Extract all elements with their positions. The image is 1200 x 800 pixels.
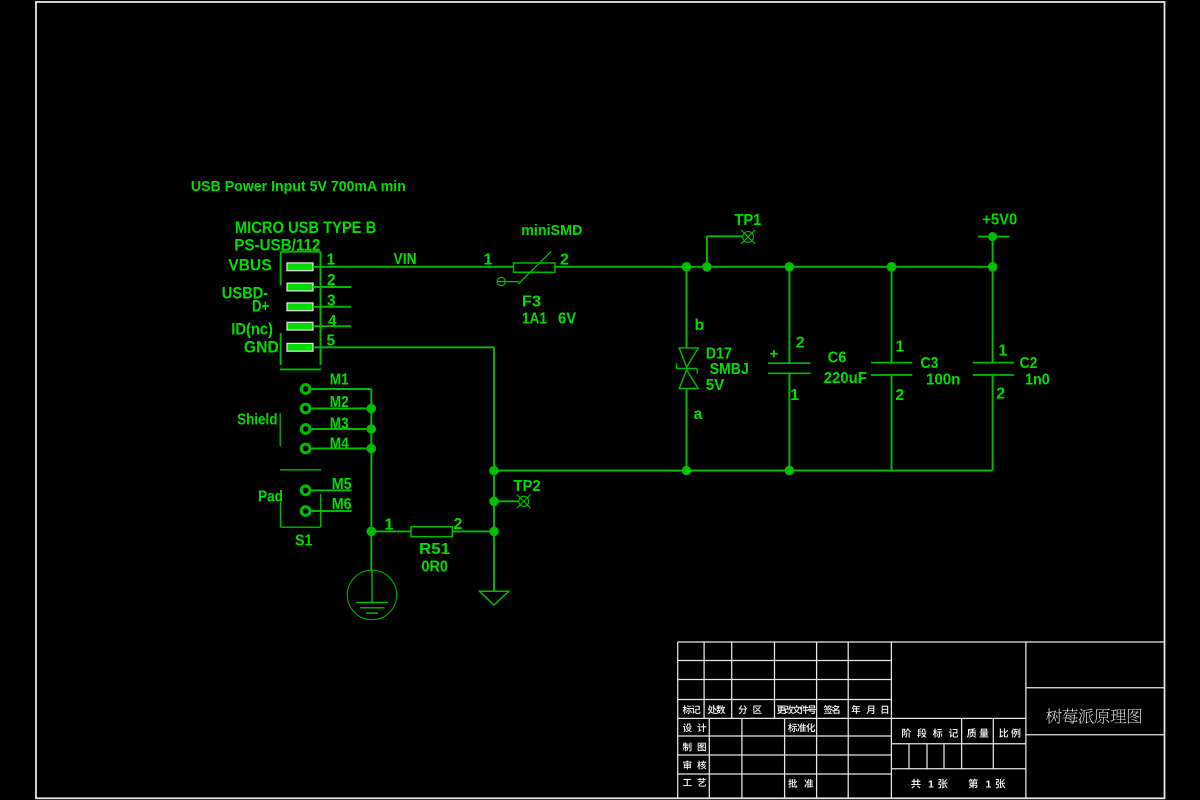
wire C3 bottom branch xyxy=(891,375,893,471)
wire R51 right xyxy=(452,530,494,532)
pad bracket xyxy=(281,494,321,527)
TVS diode D17 symbol xyxy=(677,348,699,389)
header 质量 xyxy=(967,728,976,737)
junction TP2 xyxy=(489,497,499,507)
svg-text:M2: M2 xyxy=(330,394,349,411)
capacitor C6 plates xyxy=(768,363,811,373)
wire C3 top branch xyxy=(891,267,893,363)
svg-text:0R0: 0R0 xyxy=(422,558,448,575)
svg-text:S1: S1 xyxy=(295,533,313,550)
wire GND from pin5 xyxy=(313,346,494,348)
wire from fuse to +5V0 rail xyxy=(555,266,993,268)
svg-text:C3: C3 xyxy=(921,355,939,372)
svg-text:M5: M5 xyxy=(332,476,352,493)
wire VIN from pin1 to fuse xyxy=(313,266,514,268)
testpoint TP1 symbol xyxy=(741,230,755,244)
earth ground symbol (S1) xyxy=(347,570,396,619)
wire D17 top branch xyxy=(686,267,688,348)
svg-text:TP2: TP2 xyxy=(513,478,540,495)
capacitor C3 plates xyxy=(871,363,912,375)
svg-text:100n: 100n xyxy=(926,372,960,389)
connector J1 MICRO USB TYPE B body xyxy=(280,252,321,370)
ground triangle GND xyxy=(480,591,509,605)
junction R51 pin2 xyxy=(489,527,499,537)
svg-text:Shield: Shield xyxy=(237,412,277,429)
svg-text:2: 2 xyxy=(895,387,904,404)
svg-text:MICRO USB TYPE B: MICRO USB TYPE B xyxy=(235,218,376,237)
svg-text:2: 2 xyxy=(454,516,463,533)
svg-text:2: 2 xyxy=(996,385,1005,402)
row 制图 xyxy=(683,742,692,751)
header 比例 xyxy=(999,728,1008,737)
junction D17 bottom xyxy=(682,466,692,476)
svg-text:1n0: 1n0 xyxy=(1025,372,1050,389)
svg-text:a: a xyxy=(694,406,703,423)
svg-text:b: b xyxy=(695,317,705,334)
svg-text:miniSMD: miniSMD xyxy=(521,222,582,239)
junction bottom rail left xyxy=(489,466,499,476)
svg-text:M4: M4 xyxy=(330,435,349,452)
wire C2 top branch xyxy=(992,267,994,363)
header 处数 xyxy=(708,705,717,714)
header 分区 xyxy=(738,705,747,714)
junction D17/top xyxy=(682,262,692,272)
svg-text:ID(nc): ID(nc) xyxy=(231,320,273,339)
junction M4 xyxy=(367,444,377,454)
mounting pins M1-M4 pads and wires xyxy=(301,385,371,453)
svg-text:1: 1 xyxy=(986,779,992,791)
svg-text:VBUS: VBUS xyxy=(228,255,272,274)
svg-text:Pad: Pad xyxy=(258,489,283,506)
wire pin2 stub xyxy=(313,286,351,288)
row 工艺 xyxy=(683,779,692,786)
resistor R51 body xyxy=(411,527,452,537)
wire C2 bottom branch xyxy=(992,375,994,471)
sheet num 第1张 xyxy=(968,779,978,789)
testpoint TP2 symbol xyxy=(517,494,531,508)
capacitor C2 plates xyxy=(973,363,1014,375)
junction C6 top xyxy=(785,262,795,272)
svg-text:F3: F3 xyxy=(522,294,541,311)
wire TP1 branch xyxy=(706,236,708,266)
wire C6 top branch xyxy=(788,267,790,363)
wire D17 bottom branch xyxy=(686,389,688,471)
junction C2/+5V0 xyxy=(988,262,998,272)
svg-text:M1: M1 xyxy=(330,372,349,389)
svg-text:VIN: VIN xyxy=(394,251,417,268)
fuse F3 miniSMD body xyxy=(497,251,555,285)
row 标准化 xyxy=(788,723,797,732)
junction R51 pin1 xyxy=(367,527,377,537)
row 审核 xyxy=(683,760,691,769)
junction C3 top xyxy=(887,262,897,272)
svg-text:TP1: TP1 xyxy=(734,212,761,229)
svg-text:GND: GND xyxy=(244,338,279,357)
svg-text:4: 4 xyxy=(328,313,337,330)
junction TP1 xyxy=(702,262,712,272)
svg-text:1: 1 xyxy=(998,343,1007,360)
svg-text:R51: R51 xyxy=(419,541,450,558)
header 标记 xyxy=(683,705,692,714)
svg-text:1: 1 xyxy=(790,387,799,404)
junction M3 xyxy=(367,424,377,434)
row 设计 xyxy=(683,723,692,732)
svg-text:+: + xyxy=(770,346,779,363)
svg-text:USB Power Input 5V 700mA min: USB Power Input 5V 700mA min xyxy=(191,179,406,195)
header 阶段标记 xyxy=(902,728,911,737)
svg-text:SMBJ: SMBJ xyxy=(710,361,749,378)
svg-text:M3: M3 xyxy=(330,415,349,432)
svg-text:1: 1 xyxy=(385,517,394,534)
svg-text:+5V0: +5V0 xyxy=(982,211,1017,228)
svg-text:1: 1 xyxy=(895,339,904,356)
power symbol +5V0 xyxy=(978,232,1010,267)
shield bracket xyxy=(279,413,281,446)
pad pins M5-M6 xyxy=(301,486,351,516)
wire pin4 stub xyxy=(313,325,351,327)
wire bottom ground rail xyxy=(494,470,993,472)
svg-text:D17: D17 xyxy=(706,345,732,362)
svg-text:1: 1 xyxy=(928,779,934,791)
svg-text:M6: M6 xyxy=(332,496,352,513)
svg-text:220uF: 220uF xyxy=(824,370,867,387)
wire TP2 stub xyxy=(494,500,519,502)
svg-text:1A1: 1A1 xyxy=(522,311,547,328)
title block grid xyxy=(678,642,1165,798)
wire C6 bottom branch xyxy=(788,373,790,470)
svg-text:C2: C2 xyxy=(1020,355,1038,372)
wire pin3 stub xyxy=(313,306,351,308)
junction M2 xyxy=(367,404,377,414)
svg-text:6V: 6V xyxy=(558,311,576,328)
svg-text:C6: C6 xyxy=(828,349,847,366)
wire R51 left xyxy=(371,530,411,532)
svg-text:D+: D+ xyxy=(252,297,269,316)
drawing title 树莓派原理图 xyxy=(1046,708,1062,723)
header 更改文件号 xyxy=(777,706,786,715)
shield/pad divider xyxy=(280,469,321,471)
sheet count 共1张 xyxy=(911,779,920,789)
svg-text:2: 2 xyxy=(796,334,805,351)
svg-text:1: 1 xyxy=(484,251,493,268)
shield bus wire xyxy=(370,389,372,571)
header 签名 xyxy=(824,705,833,714)
junction C6 bottom xyxy=(785,466,795,476)
header 年月日 xyxy=(851,705,860,714)
connector J1 pads pins 1-5 xyxy=(287,263,313,351)
svg-text:5V: 5V xyxy=(706,377,725,394)
row 批准 xyxy=(788,779,797,788)
